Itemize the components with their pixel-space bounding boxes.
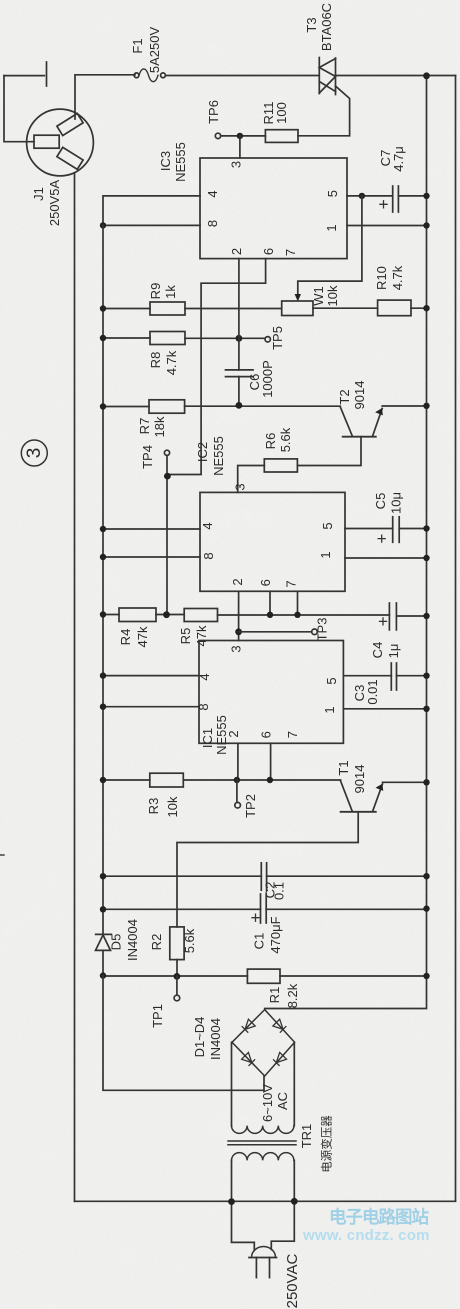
node junction rail pin1 IC3 [423, 222, 429, 228]
svg-text:电源变压器: 电源变压器 [320, 1115, 334, 1173]
wire top rail fuse to triac [165, 75, 319, 77]
resistor R1 [247, 969, 300, 1008]
svg-text:10μ: 10μ [389, 492, 404, 514]
node junction TP4 [164, 473, 171, 480]
node junction R2-TP1 [174, 973, 181, 980]
svg-text:T3: T3 [304, 17, 319, 32]
wire TP6 to pin3 IC3 [221, 135, 266, 137]
node junction rail C5 [423, 525, 429, 531]
watermark site name [302, 1207, 430, 1244]
svg-text:TP5: TP5 [270, 326, 285, 350]
svg-text:470μF: 470μF [268, 916, 283, 953]
wire IC3 pin4 [103, 196, 200, 226]
svg-text:F1: F1 [130, 38, 145, 53]
svg-text:T2: T2 [337, 389, 352, 404]
node junction R7-C6 [236, 402, 243, 409]
wire small left-edge mark [0, 854, 4, 856]
wire IC1 pin6 down [270, 743, 272, 780]
resistor R6 [238, 427, 298, 492]
svg-text:3: 3 [229, 161, 244, 168]
svg-text:3: 3 [229, 645, 244, 652]
svg-text:10k: 10k [165, 796, 180, 817]
svg-text:18k: 18k [152, 416, 167, 437]
svg-text:5: 5 [325, 190, 340, 197]
svg-text:1: 1 [322, 706, 337, 713]
svg-text:R1: R1 [267, 987, 282, 1004]
svg-text:TP3: TP3 [315, 618, 330, 642]
capacitor C2 [261, 863, 286, 900]
node junction pin5-wiper [359, 193, 365, 199]
svg-text:6: 6 [259, 731, 274, 738]
resistor R4 [103, 608, 184, 647]
wire IC1 pin4 [103, 675, 199, 677]
fuse F1 [130, 27, 165, 82]
wire IC2 pin5 to C5 [345, 528, 393, 530]
svg-text:9014: 9014 [352, 381, 367, 410]
svg-text:4.7k: 4.7k [390, 265, 405, 290]
svg-text:9014: 9014 [352, 765, 367, 794]
wire R10 to rail [411, 307, 427, 309]
node junction pin7 IC2 [294, 612, 300, 618]
svg-text:J1: J1 [31, 187, 46, 201]
resistor R7 [103, 400, 340, 438]
wire bottom frame [75, 1200, 456, 1202]
svg-text:4.7k: 4.7k [164, 350, 179, 375]
node junction rail pin1 IC1 [423, 706, 429, 712]
wire C2 row [103, 875, 427, 877]
node junction rail pin8 IC3 [100, 222, 106, 228]
wire IC2 pin7 down [297, 591, 299, 615]
node junction rail R9 [100, 305, 106, 311]
wire TP4 net [166, 455, 168, 615]
svg-text:R8: R8 [148, 352, 163, 369]
svg-text:AC: AC [275, 1092, 290, 1110]
svg-text:5: 5 [320, 522, 335, 529]
svg-text:W1: W1 [311, 286, 326, 306]
node junction R8-pin2 [236, 335, 243, 342]
node junction rail pin1 IC2 [423, 555, 429, 561]
node junction rail T2 emitter [423, 403, 429, 409]
wire top rail left stub [4, 75, 44, 77]
svg-text:7: 7 [284, 580, 299, 587]
svg-text:5: 5 [324, 677, 339, 684]
wire R1 row [103, 975, 427, 977]
connector 250VAC plug [249, 1247, 301, 1309]
svg-text:5.6k: 5.6k [278, 427, 293, 452]
wire IC3 pin1 to rail [347, 225, 427, 227]
node junction rail pin8 IC1 [100, 704, 106, 710]
svg-text:TP6: TP6 [206, 100, 221, 124]
node junction rail pin4 IC2 [100, 526, 106, 532]
node junction bottom frame left leg [228, 1198, 235, 1205]
capacitor C1 [252, 894, 284, 954]
wire IC1 pin1 to rail [343, 708, 426, 710]
node junction TP3 tap [235, 628, 242, 635]
wire +V rail bottom to bridge [103, 975, 264, 1090]
svg-text:TP1: TP1 [150, 1004, 165, 1028]
svg-text:IC2: IC2 [195, 442, 210, 462]
triac T3 [304, 3, 336, 95]
svg-text:电子电路图站: 电子电路图站 [329, 1207, 429, 1227]
svg-text:4: 4 [197, 673, 212, 680]
svg-text:1000P: 1000P [260, 360, 275, 398]
test point TP4 [140, 445, 170, 469]
node junction rail left C1 [100, 906, 106, 912]
resistor R10 [374, 265, 411, 315]
wire left frame to plug [4, 76, 34, 142]
svg-text:D5: D5 [109, 934, 124, 951]
svg-text:R10: R10 [374, 266, 389, 290]
wire TP3 lead [239, 631, 312, 633]
svg-text:IC3: IC3 [158, 151, 173, 171]
svg-text:C5: C5 [373, 493, 388, 510]
node junction R4-R5 [163, 611, 170, 618]
node junction rail left C2 [100, 873, 106, 879]
svg-text:TR1: TR1 [299, 1124, 314, 1149]
svg-text:1: 1 [318, 551, 333, 558]
capacitor C7 [378, 146, 427, 212]
wire IC3 pin5 to C7 [347, 195, 393, 197]
test point TP3 [312, 618, 330, 642]
transistor T2 [297, 381, 426, 466]
node junction pin2 IC1 [234, 777, 240, 783]
capacitor C5 [373, 492, 427, 542]
bridge rectifier D1-D4 [192, 1010, 295, 1076]
svg-text:6~10V: 6~10V [260, 1084, 275, 1122]
node junction pin3 IC3 [237, 133, 243, 139]
diode D5 [96, 919, 141, 975]
svg-text:3: 3 [24, 448, 45, 459]
wire IC1 pin8 [103, 706, 199, 708]
wire IC3 pin6 jog [167, 259, 265, 475]
resistor R2 [149, 927, 197, 977]
svg-text:0.01: 0.01 [365, 679, 380, 704]
wire left frame rail [74, 174, 76, 1201]
svg-text:TP2: TP2 [243, 794, 258, 818]
test point TP1 [150, 976, 180, 1028]
wire IC2 pin1 to rail [345, 557, 427, 559]
wire IC3 pin8 [103, 224, 200, 226]
op-amp U2 : IC2 NE555 box [195, 436, 345, 591]
svg-text:250V5A: 250V5A [47, 180, 62, 227]
op-amp U3 : IC1 NE555 box [196, 641, 343, 755]
node junction pin6 IC2 [267, 612, 273, 618]
node junction rail R8 [100, 335, 106, 341]
svg-text:R5: R5 [178, 628, 193, 645]
node junction rail pin8 IC2 [100, 554, 106, 560]
wire ground rail right [265, 76, 427, 1009]
node junction bottom frame right leg [291, 1198, 298, 1205]
test point TP6 [206, 100, 221, 139]
wire W1 to R10 [313, 307, 378, 309]
node junction rail T1 emitter [423, 779, 429, 785]
svg-text:5A250V: 5A250V [147, 27, 162, 74]
capacitor C6 [226, 360, 276, 405]
transformer TR1 [228, 1042, 334, 1250]
svg-text:6: 6 [261, 248, 276, 255]
wire IC3 pin2 down [238, 259, 240, 370]
wire C1 row [103, 908, 427, 910]
node junction pin6 IC1 [267, 777, 273, 783]
svg-text:4.7μ: 4.7μ [391, 146, 406, 172]
wire top rail triac to corner [335, 75, 455, 77]
node W1 wiper arrowhead [295, 294, 301, 302]
circled number 3 [21, 440, 47, 466]
svg-text:47k: 47k [194, 625, 209, 646]
node junction rail right C2 [423, 873, 429, 879]
svg-text:C4: C4 [370, 642, 385, 659]
svg-text:250VAC: 250VAC [284, 1253, 301, 1308]
wire IC2 pin4 [103, 528, 200, 530]
svg-text:BTA06C: BTA06C [319, 3, 334, 51]
wire IC2 pin8 [103, 556, 200, 558]
svg-text:C1: C1 [252, 933, 267, 950]
node junction rail R10 [423, 305, 429, 311]
svg-text:IC1: IC1 [200, 728, 215, 748]
wire IC2 pin6 down [269, 591, 271, 615]
svg-text:R2: R2 [149, 934, 164, 951]
wire IC2 pin2 to IC1 pin3 [238, 591, 240, 640]
wire IC1 pin5 to C3 [343, 675, 391, 677]
wire triac gate [298, 86, 350, 136]
svg-text:1: 1 [324, 224, 339, 231]
node junction rail R3 [100, 777, 106, 783]
wire IC3 pin3 lead [239, 136, 241, 158]
svg-text:R4: R4 [118, 629, 133, 646]
node junction rail R4 [100, 611, 106, 617]
resistor R3 [103, 773, 341, 817]
wire +V rail [102, 225, 104, 934]
svg-text:4: 4 [200, 522, 215, 529]
test point TP5 [265, 326, 285, 350]
svg-text:0.1: 0.1 [272, 882, 287, 900]
node junction rail right C1 [423, 905, 429, 911]
svg-text:8.2k: 8.2k [285, 983, 300, 1008]
svg-text:2: 2 [226, 730, 241, 737]
op-amp U1 : IC3 NE555 box [158, 142, 347, 258]
svg-text:10k: 10k [325, 285, 340, 306]
wire plug top lead [75, 75, 135, 119]
resistor R8 [103, 332, 265, 376]
svg-text:2: 2 [230, 578, 245, 585]
wire IC1 pin2 down [237, 743, 239, 780]
connector J1 [27, 109, 94, 226]
svg-text:100: 100 [274, 102, 289, 124]
svg-text:8: 8 [205, 220, 220, 227]
svg-text:47k: 47k [135, 626, 150, 647]
node junction rail R1 row [100, 972, 106, 978]
node junction rail C4 [423, 613, 429, 619]
capacitor C4 [370, 603, 427, 658]
node junction triac-rail [423, 72, 430, 79]
node junction rail C3 [423, 673, 429, 679]
svg-text:NE555: NE555 [211, 436, 226, 476]
node junction rail right R1 [423, 973, 429, 979]
svg-text:NE555: NE555 [173, 142, 188, 182]
capacitor C3 [352, 663, 427, 705]
svg-text:1k: 1k [163, 285, 178, 299]
svg-text:2: 2 [229, 248, 244, 255]
svg-text:IN4004: IN4004 [208, 1018, 223, 1060]
svg-text:www. cndzz. com: www. cndzz. com [302, 1227, 430, 1244]
wire outer right frame [455, 76, 457, 1201]
node junction rail pin4 IC1 [100, 672, 106, 678]
svg-text:R7: R7 [137, 418, 152, 435]
svg-text:R6: R6 [263, 433, 278, 450]
test point TP2 [235, 780, 258, 818]
svg-text:T1: T1 [336, 760, 351, 775]
svg-text:IN4004: IN4004 [125, 919, 140, 961]
svg-text:4: 4 [205, 190, 220, 197]
svg-text:3: 3 [233, 483, 248, 490]
svg-text:1μ: 1μ [386, 644, 401, 659]
wire W1 wiper to pin5 net [298, 196, 362, 298]
resistor R11 [261, 102, 298, 143]
resistor R5 [178, 609, 389, 647]
resistor R9 [103, 283, 282, 315]
svg-text:D1~D4: D1~D4 [192, 1017, 207, 1058]
svg-text:TP4: TP4 [140, 445, 155, 469]
svg-text:7: 7 [285, 731, 300, 738]
node junction rail R7 [100, 403, 106, 409]
transistor T1 [177, 760, 427, 926]
potentiometer W1 [282, 285, 340, 315]
node plug contact bar [46, 62, 48, 86]
svg-text:8: 8 [201, 552, 216, 559]
svg-text:5.6k: 5.6k [182, 928, 197, 953]
svg-text:7: 7 [283, 249, 298, 256]
svg-text:6: 6 [258, 579, 273, 586]
svg-text:R3: R3 [146, 798, 161, 815]
node junction rail C7 [423, 193, 429, 199]
svg-text:R9: R9 [148, 283, 163, 300]
